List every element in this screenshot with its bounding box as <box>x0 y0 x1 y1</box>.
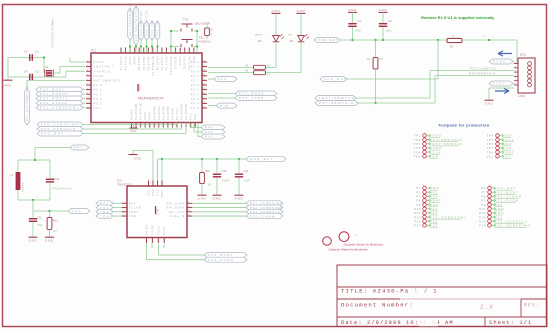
net label P31_UCB0SIMO <box>193 202 246 204</box>
capacitor C13 <box>216 159 218 173</box>
svg-text:31: 31 <box>125 50 127 52</box>
svg-text:GPIOA: GPIOA <box>146 224 149 235</box>
net label P18 <box>216 103 237 108</box>
svg-text:30: 30 <box>203 102 205 104</box>
svg-text:D2: D2 <box>258 39 262 43</box>
svg-text:RST/SBWTDIO: RST/SBWTDIO <box>94 79 121 83</box>
svg-text:C2: C2 <box>388 19 392 23</box>
svg-text:8: 8 <box>87 88 88 90</box>
svg-text:23: 23 <box>203 70 205 72</box>
svg-text:P3.7: P3.7 <box>191 79 200 83</box>
svg-text:29: 29 <box>203 97 205 99</box>
svg-text:AVCC: AVCC <box>128 56 132 65</box>
wire GND_EXT rail <box>158 158 247 160</box>
svg-text:P20_BUSY: P20_BUSY <box>40 88 66 92</box>
svg-text:28: 28 <box>203 93 205 95</box>
svg-text:3: 3 <box>123 210 124 212</box>
svg-text:Sheet: 1/1: Sheet: 1/1 <box>489 320 532 326</box>
svg-text:P4.6/TB3: P4.6/TB3 <box>166 105 170 120</box>
svg-text:SPI_CLK: SPI_CLK <box>169 210 185 214</box>
svg-text:GND: GND <box>272 9 281 13</box>
svg-text:5: 5 <box>87 74 88 76</box>
svg-text:/ 1: / 1 <box>424 288 438 295</box>
capacitor C11 <box>46 178 54 180</box>
ground (C13) <box>216 192 218 195</box>
svg-text:VBAT: VBAT <box>161 189 164 198</box>
svg-text:Q1: Q1 <box>45 65 49 69</box>
svg-text:2: 2 <box>87 60 88 62</box>
wire R1 to ST1 <box>462 39 517 41</box>
net label RST/SBWTDIO (long) <box>315 101 358 106</box>
net label P27_PORT1 <box>36 96 83 101</box>
svg-text:P31_UCB0SIMO: P31_UCB0SIMO <box>495 224 532 228</box>
svg-text:Optische Marke für Bestücker: Optische Marke für Bestücker <box>329 248 369 252</box>
svg-text:Antenna: Antenna <box>22 182 25 192</box>
svg-text:TEST/SBWTCK: TEST/SBWTCK <box>319 96 355 100</box>
svg-text:SPI_SOMI: SPI_SOMI <box>166 206 185 210</box>
resistor R11 <box>49 211 51 218</box>
svg-text:F2274: F2274 <box>139 84 142 91</box>
svg-text:1M: 1M <box>208 183 212 187</box>
svg-text:7: 7 <box>131 126 133 127</box>
optical mark circle small <box>323 237 332 246</box>
svg-text:RST/SBWTDIO: RST/SBWTDIO <box>469 72 496 76</box>
net label P41 <box>201 130 225 135</box>
net label RF1 (U2) <box>96 201 113 206</box>
net label P26_BUSY <box>204 253 247 258</box>
svg-text:3: 3 <box>87 65 88 67</box>
svg-text:U: U <box>484 34 486 38</box>
svg-text:GND: GND <box>134 157 141 161</box>
svg-text:15: 15 <box>168 125 170 127</box>
net label P17_TDO (vertical) <box>128 9 133 40</box>
svg-text:green: green <box>255 33 263 37</box>
svg-text:KSR221J: KSR221J <box>199 40 212 44</box>
ground (R11) <box>49 234 51 237</box>
svg-text:P33_UCB0CLK: P33_UCB0CLK <box>41 127 77 131</box>
net label TEN (U2) <box>96 214 113 219</box>
svg-text:37: 37 <box>152 50 154 52</box>
svg-text:P3.3/SCLK: P3.3/SCLK <box>139 103 143 120</box>
svg-text:21: 21 <box>195 125 197 127</box>
svg-text:Optische Marke für Bestücker: Optische Marke für Bestücker <box>344 243 384 247</box>
svg-text:BUSY: BUSY <box>163 226 166 235</box>
svg-text:14: 14 <box>163 125 165 127</box>
svg-text:VCL: VCL <box>486 154 494 158</box>
wire D2 anode <box>275 42 277 68</box>
svg-text:RXD0: RXD0 <box>493 60 506 64</box>
svg-text:P4.0/TB0: P4.0/TB0 <box>137 56 141 71</box>
svg-text:26: 26 <box>203 83 205 85</box>
net label P21_CLKAM <box>193 215 246 217</box>
svg-text:35: 35 <box>143 50 145 52</box>
svg-text:220p: 220p <box>37 224 43 227</box>
svg-text:R11: R11 <box>53 219 58 223</box>
svg-text:6: 6 <box>87 79 88 81</box>
wire DVCC row <box>70 61 85 63</box>
svg-text:VCC_EXT: VCC_EXT <box>41 132 64 136</box>
svg-text:ST1: ST1 <box>520 53 526 57</box>
svg-text:TEN: TEN <box>413 154 421 158</box>
svg-text:XT2IN: XT2IN <box>178 56 182 66</box>
svg-text:P1.0: P1.0 <box>191 65 200 69</box>
svg-text:TEN: TEN <box>100 214 110 218</box>
svg-text:27: 27 <box>203 88 205 90</box>
svg-text:8: 8 <box>136 126 138 127</box>
svg-text:XIN/P2.6: XIN/P2.6 <box>94 69 111 73</box>
svg-text:P4.6: P4.6 <box>191 106 200 110</box>
svg-text:10: 10 <box>188 206 190 208</box>
svg-text:l: l <box>414 288 419 295</box>
LED D2 green <box>275 17 277 35</box>
resistor R9 <box>208 72 254 74</box>
wire RST/SBWTDIO <box>358 102 435 104</box>
svg-text:P2.0: P2.0 <box>94 83 103 87</box>
svg-text:IC1: IC1 <box>91 49 96 53</box>
svg-text:Testpads for production: Testpads for production <box>438 123 490 128</box>
LED D1 red <box>300 17 302 35</box>
svg-text:45: 45 <box>189 50 191 52</box>
net label P20_BUSY <box>36 87 83 92</box>
svg-text:VDD_EXT: VDD_EXT <box>318 38 339 42</box>
svg-text:GND: GND <box>379 8 388 12</box>
wire XIN <box>8 76 66 78</box>
wire VDD rail <box>340 39 447 41</box>
svg-text:C14: C14 <box>244 169 249 173</box>
svg-text:GND: GND <box>348 8 357 12</box>
svg-text:VCL: VCL <box>148 189 151 196</box>
svg-text:P2.4: P2.4 <box>191 69 200 73</box>
svg-text:P40: P40 <box>205 126 214 130</box>
svg-text:TXD0: TXD0 <box>493 82 506 86</box>
svg-text:P44_PUSH: P44_PUSH <box>208 258 234 262</box>
svg-text:30: 30 <box>121 50 123 52</box>
net label P15_TA0/TMS (vertical) <box>139 21 144 40</box>
MCU IC1 MSP430F2274 body <box>91 53 202 123</box>
svg-text:43: 43 <box>180 50 182 52</box>
net label P31_UCB0SOMI <box>36 105 83 110</box>
svg-text:47k: 47k <box>379 57 384 61</box>
svg-text:SPI_SIMO: SPI_SIMO <box>166 201 185 205</box>
svg-text:12p: 12p <box>35 70 40 74</box>
svg-text:P27_PORT1: P27_PORT1 <box>40 97 69 101</box>
net label P14_TCK/TCK (vertical) <box>144 21 149 40</box>
svg-text:20: 20 <box>190 125 192 127</box>
svg-text:P4.2/TB2: P4.2/TB2 <box>146 56 150 71</box>
optical mark circle large <box>339 232 349 242</box>
svg-text:red: red <box>288 33 292 37</box>
net label P12_TA1 (vertical) <box>155 21 160 40</box>
svg-text:Document Number:: Document Number: <box>341 302 414 309</box>
net label P33_UCB0CLK <box>193 211 246 213</box>
svg-text:P31_UCB0SOMI: P31_UCB0SOMI <box>40 106 79 110</box>
wire XOUT <box>8 57 44 59</box>
svg-text:40: 40 <box>166 50 168 52</box>
wire RST row <box>27 79 85 81</box>
capacitor C1 100n <box>352 16 354 23</box>
svg-text:4: 4 <box>123 214 124 216</box>
wire to VCL row <box>32 199 34 201</box>
svg-text:P16_TA1/TDI/TCLK: P16_TA1/TDI/TCLK <box>134 5 138 41</box>
svg-text:1: 1 <box>123 202 124 204</box>
svg-text:42: 42 <box>175 50 177 52</box>
net label VCC_EXT <box>37 131 83 136</box>
svg-text:P3.6: P3.6 <box>191 74 200 78</box>
svg-text:P17: P17 <box>414 224 421 228</box>
svg-text:5: 5 <box>515 79 516 81</box>
svg-text:P2.5: P2.5 <box>189 113 193 120</box>
svg-text:TEN: TEN <box>129 214 137 218</box>
svg-text:GND: GND <box>45 238 54 242</box>
svg-text:PSON-PC135-32.768kHz: PSON-PC135-32.768kHz <box>51 18 55 48</box>
svg-text:REV:: REV: <box>524 303 540 309</box>
wire RF1 <box>35 147 70 149</box>
resistor R2 pullup <box>375 40 377 58</box>
svg-text:GND_EXT: GND_EXT <box>250 157 274 161</box>
net label P44_PUSH <box>204 257 247 262</box>
svg-text:RF1: RF1 <box>74 146 84 150</box>
svg-text:C12: C12 <box>37 216 42 220</box>
svg-text:10: 10 <box>145 125 147 127</box>
svg-text:AVSS: AVSS <box>148 111 152 120</box>
svg-text:XT2OUT: XT2OUT <box>174 56 178 69</box>
svg-text:GND: GND <box>29 238 38 242</box>
capacitor C2 100n <box>382 16 384 23</box>
svg-text:P1.0/TACLK: P1.0/TACLK <box>169 56 173 75</box>
ground (R12) <box>201 192 203 195</box>
net label VCC_EXT (mid) <box>320 77 347 82</box>
PaLFI IC2 TMS37157 body <box>127 186 187 238</box>
svg-text:P1.1/TA0: P1.1/TA0 <box>165 56 169 70</box>
svg-text:TDO/TDI: TDO/TDI <box>183 56 187 70</box>
capacitor C14 <box>238 159 240 173</box>
net label P16_TXD0 <box>235 96 277 101</box>
wire crystal to XOUT pin <box>53 72 60 74</box>
svg-text:P16_TXD0: P16_TXD0 <box>239 96 265 100</box>
svg-text:12p: 12p <box>35 50 40 54</box>
svg-text:6: 6 <box>515 84 516 86</box>
wires switches <box>171 30 179 32</box>
svg-text:P12_TA1: P12_TA1 <box>156 20 160 36</box>
svg-text:P3.1: P3.1 <box>94 106 103 110</box>
net label P30_S1022 <box>36 101 83 106</box>
resistor R12 <box>201 159 203 173</box>
svg-text:100n: 100n <box>386 29 392 33</box>
svg-text:P42: P42 <box>205 135 214 139</box>
svg-text:P21_CLKAM: P21_CLKAM <box>250 214 276 218</box>
svg-text:P3.7/A7: P3.7/A7 <box>175 108 179 120</box>
svg-text:GND: GND <box>235 196 244 200</box>
svg-text:R1: R1 <box>450 45 454 49</box>
svg-text:P2.1: P2.1 <box>94 88 103 92</box>
svg-text:TMS: TMS <box>192 56 196 63</box>
blue arrow in <box>498 51 512 56</box>
svg-text:Remove R1 if U1 is supplied ex: Remove R1 if U1 is supplied externally <box>421 15 495 20</box>
svg-text:25: 25 <box>203 79 205 81</box>
svg-text:RF1: RF1 <box>129 201 136 205</box>
svg-text:P14_TCK/TCK: P14_TCK/TCK <box>145 10 149 36</box>
svg-text:GND: GND <box>297 9 306 13</box>
svg-text:9: 9 <box>188 202 189 204</box>
svg-text:470: 470 <box>267 65 272 68</box>
net label P32_UCB0SOMI <box>193 207 246 209</box>
svg-text:P22: P22 <box>430 224 439 228</box>
svg-text:GND: GND <box>130 131 136 133</box>
svg-text:P2.2: P2.2 <box>94 92 103 96</box>
net label P16_TDI (vertical) <box>134 6 139 45</box>
svg-text:RF2: RF2 <box>157 189 160 196</box>
net label RST/SBWTDIO (vertical) <box>25 88 30 125</box>
svg-text:1M: 1M <box>53 230 56 233</box>
svg-text:P22: P22 <box>218 77 227 81</box>
net label RXD0 <box>489 59 513 64</box>
net label TEST/SBWTCK (long) <box>315 96 356 101</box>
svg-text:17: 17 <box>177 125 179 127</box>
svg-text:P15_TA0/TMS: P15_TA0/TMS <box>139 10 143 36</box>
svg-text:P3.0: P3.0 <box>94 102 103 106</box>
svg-text:P13_TA2: P13_TA2 <box>150 20 154 36</box>
svg-text:2.X: 2.X <box>480 304 494 311</box>
resistor R8 <box>208 67 254 69</box>
svg-text:R2: R2 <box>367 57 371 61</box>
svg-text:GND: GND <box>213 196 222 200</box>
svg-text:XOUT/P2.7: XOUT/P2.7 <box>94 65 115 69</box>
svg-text:C1: C1 <box>358 19 362 23</box>
ground (ST1) <box>489 87 514 89</box>
wire P32_UCB0SIMO <box>83 124 177 126</box>
svg-text:TEST/SBWTCK: TEST/SBWTCK <box>469 67 497 71</box>
svg-text:P1.6: P1.6 <box>191 88 200 92</box>
svg-text:C13: C13 <box>222 169 227 173</box>
net label TXD0 <box>489 81 513 86</box>
resistor R1 <box>447 38 462 42</box>
svg-text:22: 22 <box>203 65 205 67</box>
svg-text:100n: 100n <box>355 29 361 33</box>
svg-text:34: 34 <box>139 50 141 52</box>
svg-text:24: 24 <box>203 74 205 76</box>
svg-text:9: 9 <box>140 126 142 127</box>
net label GND_EXT <box>246 156 286 161</box>
net label VCL (U2) <box>96 205 113 210</box>
capacitor C5 <box>205 28 210 36</box>
svg-text:11: 11 <box>87 102 89 104</box>
svg-text:L1: L1 <box>10 173 14 177</box>
svg-text:P4.4: P4.4 <box>191 102 200 106</box>
svg-text:CLKA_M: CLKA_M <box>170 214 185 218</box>
svg-text:P15: P15 <box>479 224 486 228</box>
svg-text:DVSS2: DVSS2 <box>130 109 134 120</box>
svg-text:16: 16 <box>172 125 174 127</box>
svg-text:P41: P41 <box>205 130 214 134</box>
net label P42 <box>201 134 225 139</box>
capacitor C4 <box>29 74 31 81</box>
capacitor C12 <box>32 211 34 218</box>
svg-text:P4.1/TB1: P4.1/TB1 <box>142 56 146 71</box>
svg-text:PUSH: PUSH <box>157 226 160 235</box>
ground (crystal) <box>7 58 9 78</box>
svg-text:R12: R12 <box>205 169 210 173</box>
svg-text:GND: GND <box>485 101 494 105</box>
svg-text:470: 470 <box>267 74 272 77</box>
svg-text:RST/SBWTDIO: RST/SBWTDIO <box>319 101 355 105</box>
net label VCL <box>68 209 90 214</box>
svg-text:P15_RXD0: P15_RXD0 <box>239 92 265 96</box>
svg-text:11: 11 <box>188 210 190 212</box>
svg-text:P4.5/TB2: P4.5/TB2 <box>161 105 165 120</box>
svg-text:P30_S1022: P30_S1022 <box>40 101 68 105</box>
svg-text:4: 4 <box>515 75 516 77</box>
svg-text:DVSS: DVSS <box>94 74 105 78</box>
wire VCC_EXT <box>83 133 186 135</box>
svg-text:TCLKB: TCLKB <box>129 206 141 210</box>
svg-text:9: 9 <box>87 93 88 95</box>
svg-text:P26_BUSY: P26_BUSY <box>208 253 234 257</box>
svg-text:2: 2 <box>515 66 516 68</box>
svg-text:P2.3/TA1: P2.3/TA1 <box>119 56 123 70</box>
svg-text:GPIO0: GPIO0 <box>151 224 154 235</box>
svg-text:TDI/TCLK: TDI/TCLK <box>187 56 191 71</box>
blue arrow out <box>495 88 509 93</box>
ground (C14) <box>238 192 240 195</box>
svg-text:3: 3 <box>515 71 516 73</box>
svg-text:4: 4 <box>87 70 88 72</box>
wire P33_UCB0CLK <box>83 128 182 130</box>
svg-text:P32_UCB0SIMO: P32_UCB0SIMO <box>41 123 80 127</box>
capacitor C3 <box>29 54 31 61</box>
svg-text:470p/NPO/1%: 470p/NPO/1% <box>52 188 73 191</box>
svg-text:39: 39 <box>162 50 164 52</box>
svg-text:GND: GND <box>152 189 155 196</box>
svg-text:VCL: VCL <box>503 154 512 158</box>
svg-text:P17_TA2/TDO/TDI: P17_TA2/TDO/TDI <box>128 2 132 36</box>
svg-text:P3.6/A6: P3.6/A6 <box>170 108 174 120</box>
svg-text:VCL: VCL <box>72 209 82 213</box>
ground (U1 DVSS2) <box>133 123 135 128</box>
wire D1 anode <box>300 42 302 73</box>
net label P33_UCB0CLK <box>37 127 83 132</box>
svg-text:P3.0/SIMO: P3.0/SIMO <box>180 103 184 120</box>
svg-text:10uF: 10uF <box>244 179 250 183</box>
wire antenna loop <box>18 159 50 161</box>
wire U2 GND pin to ground <box>133 150 153 152</box>
svg-text:C11: C11 <box>55 177 60 181</box>
svg-text:TMS37157: TMS37157 <box>117 183 132 187</box>
svg-text:TEN: TEN <box>430 154 440 158</box>
svg-text:1: 1 <box>515 62 516 64</box>
svg-text:10: 10 <box>452 34 455 38</box>
svg-text:P2.4/TA2: P2.4/TA2 <box>124 56 128 70</box>
svg-text:P1.2/TA1: P1.2/TA1 <box>160 56 164 70</box>
svg-text:12: 12 <box>188 214 190 216</box>
svg-text:LP20: LP20 <box>518 94 525 98</box>
svg-text:P1.4/SMCLK: P1.4/SMCLK <box>151 56 155 76</box>
inductor L1 antenna <box>16 172 21 190</box>
svg-text:D1: D1 <box>290 39 294 43</box>
net label TDA (U2) <box>96 209 113 214</box>
svg-text:P1.7: P1.7 <box>191 92 200 96</box>
svg-text:21: 21 <box>203 60 205 62</box>
svg-text:B3U-1000P: B3U-1000P <box>195 22 210 26</box>
net label P32_UCB0SIMO <box>37 122 83 127</box>
svg-text:P27_RST/SBWTDIO: P27_RST/SBWTDIO <box>25 85 29 121</box>
svg-text:13: 13 <box>158 125 160 127</box>
svg-text:MSP430F2274: MSP430F2274 <box>138 97 163 101</box>
svg-text:VCC_EXT: VCC_EXT <box>324 77 347 81</box>
net label P40 <box>201 125 225 130</box>
wire VCC_EXT to R1 left <box>347 78 438 80</box>
crystal Q1 32.768kHz <box>46 70 52 76</box>
svg-text:AVCC: AVCC <box>143 111 147 120</box>
